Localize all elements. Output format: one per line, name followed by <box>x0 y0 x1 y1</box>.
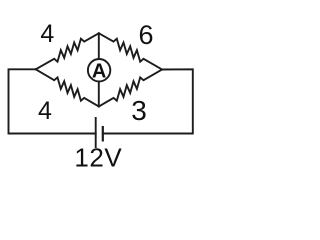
battery V1 short plate <box>102 126 104 142</box>
resistor R1 4 (top-left arm) <box>36 33 99 69</box>
wire ammeter to bottom vertex <box>98 81 100 106</box>
wire battery to right edge and up to right vertex <box>103 69 193 133</box>
wire left vertex to left edge and down to battery <box>9 69 96 133</box>
svg-text:4: 4 <box>40 20 54 48</box>
resistor R2 6 (top-right arm) <box>99 33 162 69</box>
battery V1 long plate <box>95 117 97 148</box>
wire top vertex to ammeter <box>98 33 100 59</box>
svg-text:4: 4 <box>38 97 52 125</box>
resistor R3 4 (bottom-left arm) <box>36 69 99 106</box>
svg-text:6: 6 <box>138 20 153 50</box>
svg-text:3: 3 <box>131 95 147 126</box>
svg-text:12V: 12V <box>74 142 122 172</box>
svg-text:A: A <box>92 60 106 82</box>
resistor R4 3 (bottom-right arm) <box>99 70 162 107</box>
ammeter U1 circle <box>88 59 110 81</box>
